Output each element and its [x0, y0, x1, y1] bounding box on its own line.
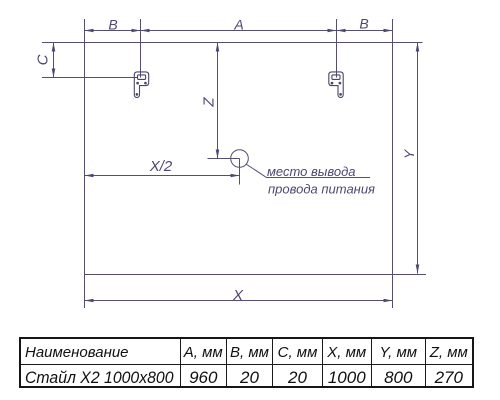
leader line to note text	[246, 164, 370, 178]
power outlet circle	[231, 150, 249, 168]
svg-text:провода питания: провода питания	[268, 182, 375, 197]
top dimension line B / A / B	[85, 30, 393, 32]
arrows: X/2 dim	[85, 174, 94, 178]
arrows: C dim	[52, 43, 56, 52]
svg-text:место вывода: место вывода	[267, 164, 356, 179]
arrows: top dim B right	[384, 29, 393, 33]
left hook extension line	[140, 19, 142, 78]
X dimension line	[85, 300, 393, 302]
C lower extension line (hook slot level)	[42, 77, 138, 79]
circle horizontal centerline	[208, 158, 240, 160]
X/2 dimension line	[85, 175, 240, 177]
arrows: X dim	[85, 299, 94, 303]
svg-text:A: A	[233, 16, 243, 32]
svg-text:B: B	[108, 16, 117, 32]
arrows: top dim B right / A left pair	[132, 29, 141, 33]
right hook extension line	[336, 19, 338, 78]
panel left edge (extension to top dim and X dim)	[84, 19, 86, 308]
Z dimension line	[217, 43, 219, 159]
svg-text:X/2: X/2	[149, 158, 173, 175]
arrows: Z dim	[216, 43, 220, 52]
circle vertical centerline	[239, 159, 241, 185]
arrows: Y dim	[416, 43, 420, 52]
panel top edge (extends left for C dim, right for Y dim)	[42, 42, 423, 44]
arrows: top dim B left	[85, 29, 94, 33]
C dimension line	[53, 43, 55, 78]
right mounting hook (mirrored)	[329, 72, 343, 98]
Y dimension line	[417, 43, 419, 274]
dimension table	[19, 337, 474, 388]
arrows: top dim A right / B left pair	[328, 29, 337, 33]
left mounting hook	[134, 72, 148, 98]
svg-text:C: C	[35, 54, 52, 65]
panel right edge (extension to top dim and X dim)	[392, 19, 394, 308]
panel bottom edge (extends right for Y dim)	[85, 274, 427, 276]
svg-text:B: B	[359, 15, 368, 31]
svg-text:Z: Z	[201, 97, 218, 108]
svg-text:X: X	[232, 287, 244, 304]
svg-text:Y: Y	[401, 148, 417, 159]
